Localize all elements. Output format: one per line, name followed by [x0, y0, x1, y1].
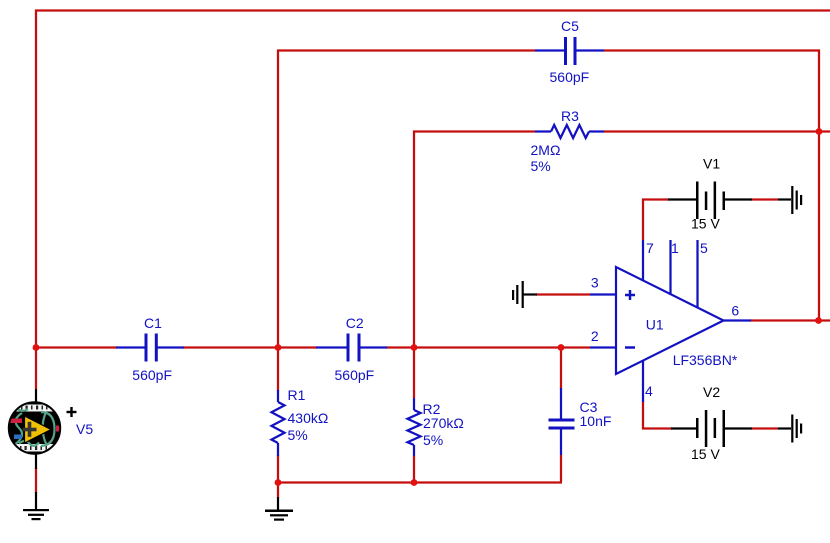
svg-text:560pF: 560pF: [132, 367, 172, 383]
svg-text:5%: 5%: [423, 432, 443, 448]
svg-text:430kΩ: 430kΩ: [288, 410, 329, 426]
svg-text:R3: R3: [561, 108, 579, 124]
svg-text:V2: V2: [703, 384, 720, 400]
svg-text:7: 7: [646, 240, 654, 256]
svg-text:C5: C5: [561, 18, 579, 34]
svg-text:15 V: 15 V: [691, 446, 720, 462]
svg-text:5%: 5%: [288, 427, 308, 443]
svg-text:5%: 5%: [531, 158, 551, 174]
svg-text:2: 2: [591, 328, 599, 344]
svg-text:1: 1: [671, 240, 679, 256]
svg-text:560pF: 560pF: [335, 367, 375, 383]
svg-text:V1: V1: [703, 156, 720, 172]
svg-text:10nF: 10nF: [580, 413, 612, 429]
svg-text:2MΩ: 2MΩ: [531, 142, 561, 158]
svg-text:V5: V5: [76, 421, 93, 437]
svg-text:15 V: 15 V: [691, 216, 720, 232]
svg-text:U1: U1: [646, 317, 664, 333]
svg-text:4: 4: [645, 383, 653, 399]
svg-text:270kΩ: 270kΩ: [423, 415, 464, 431]
svg-text:6: 6: [731, 303, 739, 319]
svg-text:560pF: 560pF: [550, 69, 590, 85]
svg-text:LF356BN*: LF356BN*: [673, 352, 738, 368]
svg-text:C1: C1: [144, 315, 162, 331]
svg-text:3: 3: [591, 275, 599, 291]
svg-text:C2: C2: [346, 315, 364, 331]
svg-text:5: 5: [700, 240, 708, 256]
svg-text:R1: R1: [288, 387, 306, 403]
